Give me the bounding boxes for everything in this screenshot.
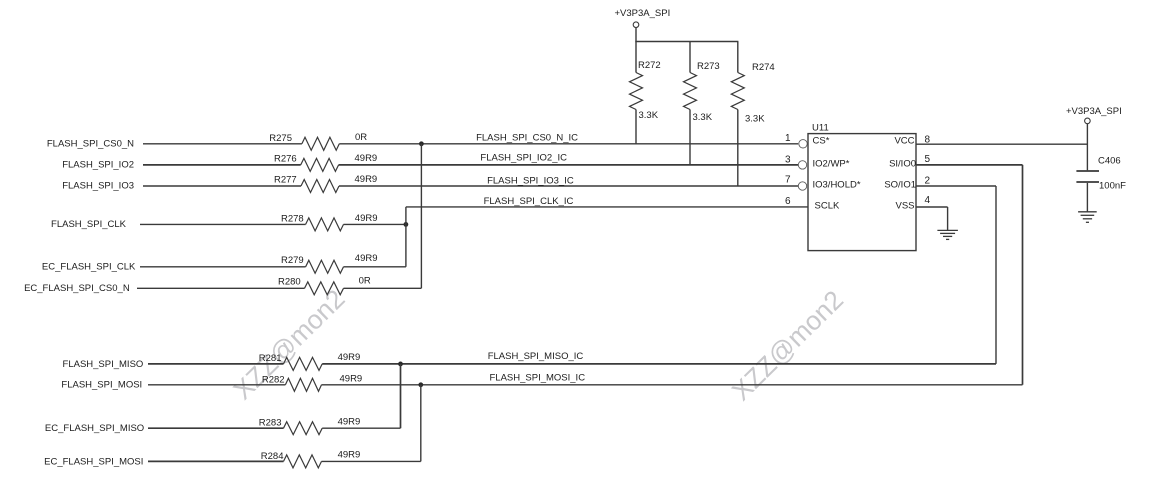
svg-text:U11: U11 <box>812 123 829 134</box>
svg-text:VCC: VCC <box>894 136 914 147</box>
svg-text:IO3/HOLD*: IO3/HOLD* <box>813 179 861 190</box>
svg-text:49R9: 49R9 <box>355 213 378 224</box>
svg-text:3.3K: 3.3K <box>693 112 713 123</box>
node EC_FLASH_SPI_CS0_N <box>24 283 130 294</box>
node FLASH_SPI_CS0_N <box>47 138 134 149</box>
svg-text:R272: R272 <box>638 60 661 71</box>
wire <box>344 287 422 289</box>
svg-text:49R9: 49R9 <box>338 417 361 428</box>
resistor R284 <box>261 450 361 468</box>
svg-text:FLASH_SPI_IO3: FLASH_SPI_IO3 <box>62 180 134 191</box>
svg-text:R282: R282 <box>262 374 285 385</box>
svg-text:6: 6 <box>785 196 791 207</box>
svg-text:R276: R276 <box>274 153 297 164</box>
resistor R275 <box>269 132 367 150</box>
pin 7 IO3/HOLD* <box>785 175 861 191</box>
resistor R278 <box>281 213 378 231</box>
node FLASH_SPI_CLK_IC <box>484 196 574 207</box>
svg-text:CS*: CS* <box>813 136 830 147</box>
wire <box>420 385 422 462</box>
svg-text:49R9: 49R9 <box>355 153 378 164</box>
svg-text:SCLK: SCLK <box>815 200 840 211</box>
junction <box>404 222 409 227</box>
wire FLASH_SPI_MOSI_IC <box>322 384 1023 386</box>
junction <box>418 382 423 387</box>
resistor R283 <box>259 417 361 435</box>
wire pull-up rail <box>635 41 738 43</box>
svg-text:+V3P3A_SPI: +V3P3A_SPI <box>615 8 671 19</box>
svg-text:FLASH_SPI_MISO: FLASH_SPI_MISO <box>63 359 144 370</box>
resistor R277 <box>274 174 377 193</box>
resistor R281 <box>259 352 361 371</box>
svg-text:R274: R274 <box>752 62 775 73</box>
watermark <box>726 285 849 407</box>
wire FLASH_SPI_IO2_IC <box>339 164 799 166</box>
node FLASH_SPI_IO2_IC <box>480 152 567 163</box>
resistor R273 <box>684 42 720 166</box>
wire <box>137 287 305 289</box>
node FLASH_SPI_IO3 <box>62 180 134 191</box>
IC U11 body <box>808 123 916 251</box>
wire <box>140 223 306 225</box>
wire <box>148 460 284 462</box>
node FLASH_SPI_MOSI_IC <box>490 373 586 384</box>
node FLASH_SPI_MOSI <box>61 380 142 391</box>
wire <box>140 266 306 268</box>
svg-text:SI/IO0: SI/IO0 <box>889 159 916 170</box>
watermark <box>227 284 350 406</box>
wire FLASH_SPI_MISO_IC <box>322 363 996 365</box>
svg-text:EC_FLASH_SPI_CS0_N: EC_FLASH_SPI_CS0_N <box>24 283 130 294</box>
pin 6 SCLK <box>785 196 840 211</box>
svg-text:FLASH_SPI_CLK_IC: FLASH_SPI_CLK_IC <box>484 196 574 207</box>
resistor R276 <box>274 153 377 171</box>
wire <box>344 266 406 268</box>
node EC_FLASH_SPI_MOSI <box>44 456 143 467</box>
resistor R272 <box>630 42 661 145</box>
svg-text:3: 3 <box>785 155 791 166</box>
junction <box>419 141 424 146</box>
svg-text:IO2/WP*: IO2/WP* <box>813 159 850 170</box>
wire FLASH_SPI_IO3_IC <box>339 185 798 187</box>
svg-text:49R9: 49R9 <box>338 352 361 363</box>
pin 3 IO2/WP* <box>785 155 850 170</box>
svg-text:R273: R273 <box>697 61 720 72</box>
wire <box>148 384 285 386</box>
resistor R280 <box>278 276 371 295</box>
wire <box>148 363 284 365</box>
svg-text:FLASH_SPI_CLK: FLASH_SPI_CLK <box>51 219 127 230</box>
node FLASH_SPI_CS0_N_IC <box>476 133 578 144</box>
svg-text:R277: R277 <box>274 174 297 185</box>
wire <box>322 427 400 429</box>
wire <box>148 427 284 429</box>
node FLASH_SPI_IO3_IC <box>487 175 574 186</box>
node FLASH_SPI_MISO_IC <box>488 351 584 362</box>
capacitor C406 <box>1076 156 1126 212</box>
svg-text:FLASH_SPI_IO3_IC: FLASH_SPI_IO3_IC <box>487 175 574 186</box>
node FLASH_SPI_CLK <box>51 219 127 230</box>
svg-text:49R9: 49R9 <box>340 374 363 385</box>
svg-text:R275: R275 <box>269 133 292 144</box>
svg-text:3.3K: 3.3K <box>745 113 765 124</box>
svg-text:7: 7 <box>785 175 791 186</box>
svg-text:FLASH_SPI_MOSI: FLASH_SPI_MOSI <box>61 380 142 391</box>
pin 5 SI/IO0 <box>889 154 1022 385</box>
junction <box>398 362 403 367</box>
wire <box>405 207 407 225</box>
wire <box>143 185 301 187</box>
resistor R279 <box>281 253 378 274</box>
pin 1 CS* <box>785 133 830 148</box>
svg-text:2: 2 <box>925 176 931 187</box>
svg-text:SO/IO1: SO/IO1 <box>884 179 916 190</box>
node FLASH_SPI_IO2 <box>62 160 134 171</box>
wire <box>400 364 402 428</box>
node EC_FLASH_SPI_CLK <box>42 262 136 273</box>
pin 4 VSS <box>895 195 947 230</box>
wire <box>405 224 407 266</box>
svg-text:49R9: 49R9 <box>338 450 361 461</box>
svg-text:FLASH_SPI_MISO_IC: FLASH_SPI_MISO_IC <box>488 351 584 362</box>
ground (VSS) <box>937 230 958 239</box>
resistor R282 <box>262 374 362 392</box>
svg-text:49R9: 49R9 <box>355 174 378 185</box>
svg-text:R279: R279 <box>281 255 304 266</box>
node FLASH_SPI_MISO <box>63 359 144 370</box>
wire <box>143 143 302 145</box>
svg-text:EC_FLASH_SPI_MOSI: EC_FLASH_SPI_MOSI <box>44 456 143 467</box>
svg-text:R281: R281 <box>259 353 282 364</box>
wire FLASH_SPI_CLK_IC <box>406 206 808 208</box>
svg-text:EC_FLASH_SPI_MISO: EC_FLASH_SPI_MISO <box>45 423 144 434</box>
pin 8 VCC <box>894 134 1087 146</box>
svg-text:FLASH_SPI_CS0_N_IC: FLASH_SPI_CS0_N_IC <box>476 133 578 144</box>
svg-text:4: 4 <box>925 195 931 206</box>
power +V3P3A_SPI (cap) <box>1066 106 1122 170</box>
svg-text:FLASH_SPI_IO2: FLASH_SPI_IO2 <box>62 160 134 171</box>
svg-text:FLASH_SPI_CS0_N: FLASH_SPI_CS0_N <box>47 138 134 149</box>
svg-text:49R9: 49R9 <box>355 253 378 264</box>
power +V3P3A_SPI (pull-up rail) <box>615 8 671 42</box>
wire <box>344 223 406 225</box>
svg-text:FLASH_SPI_IO2_IC: FLASH_SPI_IO2_IC <box>480 152 567 163</box>
svg-text:R278: R278 <box>281 213 304 224</box>
wire <box>322 460 421 462</box>
svg-text:C406: C406 <box>1098 156 1121 167</box>
svg-text:VSS: VSS <box>895 200 914 211</box>
node EC_FLASH_SPI_MISO <box>45 423 144 434</box>
wire <box>143 164 301 166</box>
wire <box>420 144 422 288</box>
svg-text:FLASH_SPI_MOSI_IC: FLASH_SPI_MOSI_IC <box>490 373 586 384</box>
svg-text:5: 5 <box>925 154 931 165</box>
pin 2 SO/IO1 <box>884 176 996 364</box>
svg-text:R284: R284 <box>261 451 284 462</box>
ground (C406) <box>1078 212 1097 223</box>
svg-text:R283: R283 <box>259 418 282 429</box>
svg-text:0R: 0R <box>359 276 371 287</box>
svg-text:1: 1 <box>785 133 791 144</box>
svg-text:3.3K: 3.3K <box>639 110 659 121</box>
svg-text:0R: 0R <box>355 132 367 143</box>
wire FLASH_SPI_CS0_N_IC <box>339 143 798 145</box>
svg-text:R280: R280 <box>278 277 301 288</box>
svg-text:+V3P3A_SPI: +V3P3A_SPI <box>1066 106 1122 117</box>
svg-text:EC_FLASH_SPI_CLK: EC_FLASH_SPI_CLK <box>42 262 136 273</box>
svg-text:100nF: 100nF <box>1099 181 1126 192</box>
resistor R274 <box>731 42 774 187</box>
